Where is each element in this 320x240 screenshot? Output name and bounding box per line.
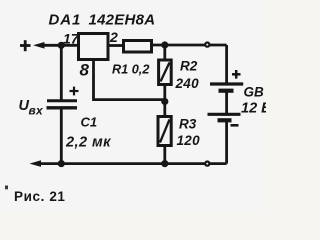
junction node C1 top bbox=[58, 42, 65, 49]
op-amp regulator DA1 box bbox=[79, 34, 109, 60]
output terminal top bbox=[205, 43, 209, 47]
wire R3 bottom lead bbox=[163, 146, 166, 164]
junction node C1 bottom bbox=[58, 160, 65, 167]
capacitor C1 bbox=[47, 101, 78, 108]
resistor R3 bbox=[158, 117, 171, 146]
svg-text:12 В: 12 В bbox=[241, 101, 266, 117]
resistor R1 bbox=[124, 41, 152, 53]
page speck bbox=[5, 186, 8, 190]
wire R2 top lead bbox=[163, 45, 166, 60]
C1 plus sign bbox=[70, 87, 79, 96]
svg-text:2: 2 bbox=[109, 29, 118, 45]
svg-text:DA1: DA1 bbox=[49, 12, 82, 29]
input arrow top bbox=[33, 42, 45, 49]
wire input to regulator bbox=[42, 44, 77, 47]
wire junction down to C1 bbox=[60, 45, 63, 100]
battery GB cell 2 bbox=[208, 113, 241, 116]
wire R1 to battery top bbox=[152, 44, 227, 47]
R2 power slash bbox=[161, 63, 170, 82]
output terminal bottom bbox=[205, 162, 209, 166]
wire C1 to bottom bbox=[60, 108, 63, 164]
svg-text:C1: C1 bbox=[81, 115, 98, 130]
svg-text:GB: GB bbox=[244, 85, 265, 100]
battery GB wires bbox=[225, 45, 228, 83]
svg-text:R3: R3 bbox=[179, 117, 197, 132]
svg-text:240: 240 bbox=[175, 76, 200, 91]
svg-text:8: 8 bbox=[80, 61, 90, 80]
battery plus sign bbox=[232, 70, 241, 79]
junction node R3 bottom bbox=[161, 160, 168, 167]
wire regulator output to R1 bbox=[108, 44, 123, 47]
svg-text:вх: вх bbox=[29, 104, 45, 118]
resistor R2 bbox=[159, 60, 172, 85]
wire pin 8 down bbox=[94, 61, 165, 100]
bottom arrow bbox=[30, 160, 42, 167]
battery minus sign bbox=[231, 124, 239, 127]
wire R2 bottom lead bbox=[163, 85, 166, 117]
svg-text:Рис. 21: Рис. 21 bbox=[14, 189, 66, 204]
input plus sign bbox=[20, 40, 31, 51]
junction node R2 top bbox=[161, 41, 168, 48]
svg-text:120: 120 bbox=[177, 133, 201, 148]
battery GB cell 1 bbox=[210, 82, 243, 85]
svg-text:R1 0,2: R1 0,2 bbox=[112, 63, 149, 77]
bottom wire bbox=[39, 162, 227, 165]
svg-text:R2: R2 bbox=[180, 59, 198, 74]
R3 power slash bbox=[160, 120, 170, 143]
svg-text:142EH8A: 142EH8A bbox=[89, 12, 156, 29]
junction node R2/R3 bbox=[161, 98, 168, 105]
svg-text:2,2 мк: 2,2 мк bbox=[65, 135, 111, 151]
